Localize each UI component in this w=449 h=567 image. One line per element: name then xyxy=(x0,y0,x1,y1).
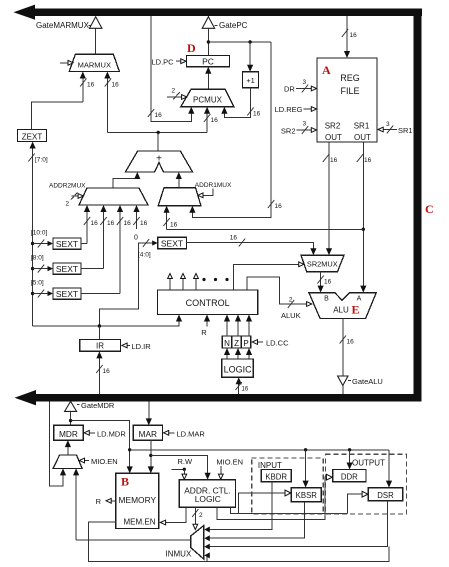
svg-text:DDR: DDR xyxy=(341,472,358,481)
svg-text:GatePC: GatePC xyxy=(219,21,248,30)
svg-text:0: 0 xyxy=(134,235,138,242)
svg-text:SR1: SR1 xyxy=(398,126,413,135)
svg-text:CONTROL: CONTROL xyxy=(186,298,230,308)
svg-text:SEXT: SEXT xyxy=(56,239,78,249)
svg-text:LD.MDR: LD.MDR xyxy=(97,429,126,438)
svg-text:SEXT: SEXT xyxy=(56,289,78,299)
svg-text:16: 16 xyxy=(103,368,111,375)
svg-text:16: 16 xyxy=(112,82,120,89)
svg-text:ALU: ALU xyxy=(333,306,349,315)
svg-text:[4:0]: [4:0] xyxy=(138,252,151,259)
svg-text:[5:0]: [5:0] xyxy=(31,280,44,287)
svg-text:[10:0]: [10:0] xyxy=(31,230,47,237)
svg-text:B: B xyxy=(324,296,329,303)
svg-text:SEXT: SEXT xyxy=(56,264,78,274)
svg-text:LD.MAR: LD.MAR xyxy=(177,429,206,438)
svg-text:A: A xyxy=(357,296,362,303)
svg-text:16: 16 xyxy=(140,220,148,227)
svg-text:2: 2 xyxy=(199,512,203,519)
svg-text:16: 16 xyxy=(275,203,283,210)
svg-text:E: E xyxy=(352,303,360,317)
svg-text:2: 2 xyxy=(65,201,69,208)
svg-text:ADDR2MUX: ADDR2MUX xyxy=(49,183,86,190)
svg-text:IR: IR xyxy=(96,342,104,351)
svg-text:16: 16 xyxy=(253,111,261,118)
svg-text:[8:0]: [8:0] xyxy=(31,255,44,262)
svg-text:MEMORY: MEMORY xyxy=(119,495,157,505)
svg-text:A: A xyxy=(322,63,331,77)
svg-text:PC: PC xyxy=(202,57,214,67)
svg-text:3: 3 xyxy=(386,121,390,128)
svg-text:16: 16 xyxy=(107,220,115,227)
svg-text:OUT: OUT xyxy=(354,133,371,142)
svg-text:INMUX: INMUX xyxy=(166,549,192,558)
svg-text:LD.IR: LD.IR xyxy=(132,342,152,351)
svg-text:DR: DR xyxy=(284,85,295,94)
svg-text:MDR: MDR xyxy=(59,429,78,439)
svg-text:16: 16 xyxy=(170,222,178,229)
svg-text:16: 16 xyxy=(364,157,372,164)
svg-text:INPUT: INPUT xyxy=(258,461,282,470)
svg-text:[7:0]: [7:0] xyxy=(35,157,48,164)
svg-text:3: 3 xyxy=(303,79,307,86)
svg-text:MARMUX: MARMUX xyxy=(78,61,111,70)
svg-text:16: 16 xyxy=(324,279,332,286)
svg-text:MAR: MAR xyxy=(139,429,157,439)
svg-text:R.W: R.W xyxy=(178,457,194,466)
svg-text:FILE: FILE xyxy=(340,86,359,96)
svg-text:SR2: SR2 xyxy=(325,122,341,131)
svg-text:16: 16 xyxy=(347,339,355,346)
svg-text:LD.PC: LD.PC xyxy=(152,58,175,67)
svg-text:Z: Z xyxy=(234,339,239,348)
svg-text:D: D xyxy=(187,41,196,55)
svg-text:OUTPUT: OUTPUT xyxy=(352,459,385,468)
svg-text:16: 16 xyxy=(230,235,238,242)
svg-text:16: 16 xyxy=(155,112,163,119)
svg-text:16: 16 xyxy=(211,117,219,124)
svg-text:+: + xyxy=(156,154,162,165)
svg-text:16: 16 xyxy=(242,387,249,393)
svg-text:LOGIC: LOGIC xyxy=(224,364,253,374)
svg-text:SR1: SR1 xyxy=(354,122,370,131)
svg-text:PCMUX: PCMUX xyxy=(193,96,223,105)
svg-text:KBSR: KBSR xyxy=(296,491,318,500)
svg-text:P: P xyxy=(243,339,248,348)
svg-text:ALUK: ALUK xyxy=(281,311,301,320)
svg-text:16: 16 xyxy=(124,220,132,227)
svg-text:SR2MUX: SR2MUX xyxy=(307,260,338,269)
svg-text:MIO.EN: MIO.EN xyxy=(91,457,118,466)
svg-text:R: R xyxy=(201,328,207,337)
svg-text:LOGIC: LOGIC xyxy=(195,494,221,504)
svg-text:LD.CC: LD.CC xyxy=(266,339,289,348)
svg-text:16: 16 xyxy=(350,32,358,39)
svg-text:ADDR1MUX: ADDR1MUX xyxy=(195,182,232,189)
svg-text:GateALU: GateALU xyxy=(352,377,383,386)
svg-text:C: C xyxy=(425,202,434,216)
svg-text:16: 16 xyxy=(91,220,99,227)
svg-text:SR2: SR2 xyxy=(281,127,296,136)
svg-text:OUT: OUT xyxy=(325,133,342,142)
svg-text:REG: REG xyxy=(340,73,360,83)
svg-text:2: 2 xyxy=(172,88,176,95)
svg-text:2: 2 xyxy=(289,297,293,304)
svg-text:LD.REG: LD.REG xyxy=(275,105,303,114)
svg-text:DSR: DSR xyxy=(377,491,394,500)
svg-text:16: 16 xyxy=(330,157,338,164)
svg-text:ZEXT: ZEXT xyxy=(22,132,43,141)
svg-text:+1: +1 xyxy=(246,76,255,85)
svg-text:GateMDR: GateMDR xyxy=(81,401,115,410)
svg-text:16: 16 xyxy=(87,82,95,89)
svg-text:N: N xyxy=(224,339,230,348)
svg-text:B: B xyxy=(121,475,129,489)
svg-text:KBDR: KBDR xyxy=(265,472,287,481)
svg-text:R: R xyxy=(96,497,102,506)
svg-text:3: 3 xyxy=(303,121,307,128)
svg-text:SEXT: SEXT xyxy=(161,238,183,248)
svg-text:MEM.EN: MEM.EN xyxy=(124,518,156,527)
svg-text:MIO.EN: MIO.EN xyxy=(216,457,243,466)
svg-text:GateMARMUX: GateMARMUX xyxy=(36,21,90,30)
